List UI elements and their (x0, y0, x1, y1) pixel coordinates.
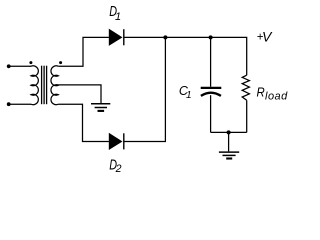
diode D2 (109, 133, 124, 150)
ground (output) (219, 152, 239, 158)
wire: C1 top stem (210, 37, 212, 86)
ground (center tap) (91, 104, 110, 111)
wire: bottom rail C1 to Rload (211, 131, 247, 133)
transformer T1 primary winding (31, 66, 38, 105)
wire: D2 return to top rail (124, 37, 166, 141)
wire: secondary bottom lead to D2 (58, 104, 109, 141)
wire: primary top lead (9, 65, 31, 67)
wire: resistor bottom lead (246, 100, 248, 132)
svg-text:R: R (257, 84, 265, 99)
label D1 (109, 3, 121, 23)
wire: primary bottom lead (9, 103, 31, 105)
node junction dot (output ground) (227, 130, 231, 134)
wire: C1 bottom stem (210, 95, 212, 132)
transformer core (42, 66, 47, 105)
label C1 (179, 84, 192, 101)
capacitor C1 (201, 88, 222, 96)
svg-text:1: 1 (115, 11, 121, 23)
diode D1 (109, 29, 124, 46)
label D2 (109, 157, 121, 175)
wire: ground stem (228, 132, 230, 151)
wire: secondary top lead to D1 (58, 37, 109, 66)
svg-text:1: 1 (186, 90, 192, 101)
svg-text:V: V (262, 29, 273, 45)
node junction dot (C1 branch) (209, 35, 213, 39)
resistor Rload (242, 75, 249, 100)
secondary phase dot (59, 61, 62, 64)
svg-text:load: load (265, 91, 288, 103)
transformer T1 secondary winding (51, 66, 58, 105)
node junction dot (D2 return) (163, 35, 167, 39)
svg-text:2: 2 (115, 163, 122, 175)
wire: center tap lead (56, 85, 101, 103)
label +V (257, 29, 273, 45)
primary phase dot (29, 61, 32, 64)
input terminal dot (bottom) (7, 102, 11, 106)
input terminal dot (top) (7, 64, 11, 68)
label Rload (257, 84, 289, 102)
wire: top rail from D1 to resistor corner (124, 37, 247, 75)
